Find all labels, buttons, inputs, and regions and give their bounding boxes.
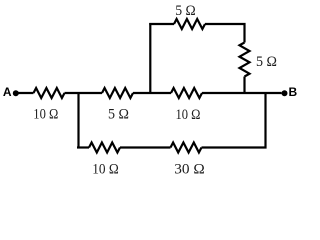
wire bottom rail right with riser to main line — [202, 92, 266, 148]
resistor R6 10Ω — [89, 143, 120, 178]
wire top rail right with corner down — [205, 24, 245, 43]
svg-text:10 Ω: 10 Ω — [92, 161, 119, 175]
wire bottom branch left riser — [77, 92, 79, 149]
svg-text:5 Ω: 5 Ω — [256, 54, 277, 70]
svg-text:B: B — [289, 85, 298, 99]
svg-text:A: A — [3, 85, 12, 99]
wire top branch left riser — [149, 23, 151, 94]
wire bottom rail left — [77, 146, 89, 148]
resistor R4 5Ω — [174, 3, 205, 29]
svg-text:5 Ω: 5 Ω — [108, 107, 129, 123]
svg-text:10 Ω: 10 Ω — [33, 107, 58, 123]
svg-text:5 Ω: 5 Ω — [175, 3, 196, 19]
resistor R5 5Ω vertical — [240, 43, 278, 77]
wire R1 to R2 through node 1 — [65, 92, 103, 94]
wire A to R1 — [17, 92, 34, 94]
node A — [3, 85, 19, 99]
wire R3 to node B — [202, 92, 282, 94]
resistor R7 30Ω — [171, 143, 205, 178]
wire top rail left — [149, 23, 174, 25]
resistor R1 10Ω — [33, 88, 64, 123]
resistor R2 5Ω — [102, 88, 133, 123]
svg-text:30 Ω: 30 Ω — [174, 162, 205, 176]
resistor R3 10Ω — [171, 88, 202, 123]
svg-text:10 Ω: 10 Ω — [176, 107, 201, 123]
wire bottom rail middle — [120, 146, 171, 148]
wire R5 to main line — [243, 77, 245, 95]
node B — [282, 85, 298, 99]
wire R2 to R3 through node 2 — [133, 92, 171, 94]
